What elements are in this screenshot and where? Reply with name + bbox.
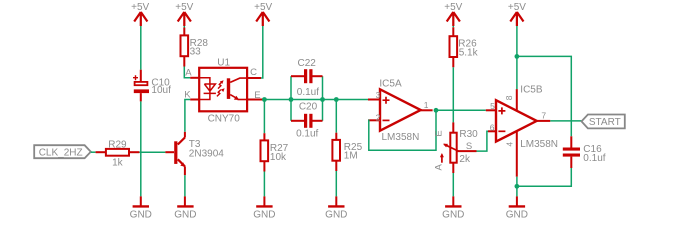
junction node at E/R27 xyxy=(262,97,267,102)
svg-text:6: 6 xyxy=(490,123,495,133)
svg-text:CLK_2HZ: CLK_2HZ xyxy=(39,147,83,158)
wire R25 branch xyxy=(335,100,337,133)
ground GND6 xyxy=(506,196,528,220)
resistor R27 xyxy=(261,133,289,171)
wire R28 to opto A xyxy=(184,67,190,78)
capacitor C16 xyxy=(563,136,606,168)
svg-text:GND: GND xyxy=(253,210,275,221)
svg-text:1M: 1M xyxy=(344,150,358,161)
svg-text:GND: GND xyxy=(130,210,152,221)
pin 3 xyxy=(368,99,380,101)
wire T3 emitter to GND xyxy=(184,175,186,196)
wire flag to R29 xyxy=(91,151,96,153)
wire +5V to R26 xyxy=(452,26,454,27)
svg-text:5.1k: 5.1k xyxy=(459,48,479,59)
svg-text:START: START xyxy=(589,117,621,128)
wire C16 to GND rail xyxy=(517,168,571,186)
svg-text:GND: GND xyxy=(506,210,528,221)
trimmer R30 xyxy=(433,122,478,173)
supply +5V (net to C10) xyxy=(131,2,149,26)
optocoupler U1 CNY70 xyxy=(184,58,262,125)
wire right cap rail xyxy=(322,76,324,121)
svg-text:33: 33 xyxy=(190,46,202,57)
wire +5V to opto C xyxy=(261,26,263,78)
pin 8 xyxy=(516,89,518,110)
pin K xyxy=(190,99,199,101)
svg-text:+5V: +5V xyxy=(254,2,272,13)
pin 7 xyxy=(537,120,551,122)
svg-text:0.1uf: 0.1uf xyxy=(583,153,605,164)
phototransistor inside U1 xyxy=(227,78,230,99)
wire E to IC5A pin3 (main net) xyxy=(263,99,369,101)
svg-text:2k: 2k xyxy=(459,154,471,165)
wire C10 to GND xyxy=(140,101,142,196)
svg-text:U1: U1 xyxy=(217,58,230,69)
svg-text:+5V: +5V xyxy=(131,2,149,13)
capacitor C20 xyxy=(291,101,323,139)
op-amp IC5A xyxy=(368,78,433,143)
ground GND4 xyxy=(325,196,347,220)
resistor R26 xyxy=(450,27,479,67)
pin A xyxy=(190,77,199,79)
pin 6 xyxy=(488,130,496,132)
pin 5 xyxy=(486,109,496,111)
svg-text:3: 3 xyxy=(376,90,381,100)
svg-text:A: A xyxy=(434,163,445,170)
capacitor C22 xyxy=(291,58,323,98)
junction node +5V branch xyxy=(515,54,520,59)
supply +5V (to opto C) xyxy=(254,2,272,26)
svg-text:GND: GND xyxy=(442,210,464,221)
wire R25 to GND xyxy=(335,171,337,196)
junction node left cap rail xyxy=(289,97,294,102)
svg-text:2: 2 xyxy=(376,112,381,122)
junction node right cap rail xyxy=(320,97,325,102)
svg-text:CNY70: CNY70 xyxy=(208,113,241,124)
resistor R29 xyxy=(96,139,140,168)
svg-text:IC5B: IC5B xyxy=(520,85,543,96)
pin E xyxy=(247,99,262,101)
junction node IC5A output xyxy=(434,108,439,113)
junction node R25 xyxy=(334,97,339,102)
LED inside U1 xyxy=(199,78,216,100)
svg-text:10k: 10k xyxy=(270,152,287,163)
wire R27 to GND xyxy=(263,172,265,197)
wire IC5B out to START xyxy=(550,120,581,122)
ground GND3 xyxy=(253,196,275,220)
junction node pin4/C16/GND xyxy=(515,184,520,189)
supply +5V (to IC5B pin8) xyxy=(508,2,526,26)
svg-text:4: 4 xyxy=(505,142,515,147)
flag CLK_2HZ xyxy=(34,145,91,158)
svg-text:LM358N: LM358N xyxy=(520,139,558,150)
ground GND1 xyxy=(130,196,152,220)
svg-text:0.1uf: 0.1uf xyxy=(297,87,319,98)
flag START xyxy=(582,115,625,129)
wire R30 to GND xyxy=(452,173,454,196)
wire +5V to C10 xyxy=(140,26,142,70)
svg-text:5: 5 xyxy=(490,101,495,111)
wire T3 collector to opto K xyxy=(185,100,190,132)
svg-text:A: A xyxy=(185,68,192,79)
wire feedback loop IC5A xyxy=(368,110,436,150)
svg-text:GND: GND xyxy=(325,210,347,221)
wiper pin S xyxy=(456,150,476,152)
wire R29 to T3 base xyxy=(139,151,165,153)
svg-text:+5V: +5V xyxy=(175,2,193,13)
wire left cap rail xyxy=(290,76,292,121)
svg-text:7: 7 xyxy=(541,111,546,121)
wire +5V down to pin8 xyxy=(516,26,518,89)
svg-text:R30: R30 xyxy=(459,129,478,140)
svg-text:1k: 1k xyxy=(112,157,124,168)
pin C xyxy=(247,77,261,79)
pin 1 xyxy=(421,109,433,111)
wire IC5A out to IC5B pin5 xyxy=(436,109,486,111)
wire R26 to R30 xyxy=(452,67,454,122)
resistor R28 xyxy=(181,28,209,67)
ground GND5 xyxy=(442,196,464,220)
transistor T3 xyxy=(165,132,224,175)
svg-text:IC5A: IC5A xyxy=(379,78,402,89)
svg-text:E: E xyxy=(254,90,260,101)
svg-text:2N3904: 2N3904 xyxy=(189,149,224,160)
wire pin4 to GND xyxy=(516,177,518,197)
svg-text:8: 8 xyxy=(504,95,514,100)
wire R27 branch xyxy=(263,100,265,134)
wire +5V to R28 xyxy=(183,26,185,28)
svg-text:C: C xyxy=(250,67,257,78)
wire +5V branch to C16 xyxy=(517,56,571,136)
svg-text:0.1uf: 0.1uf xyxy=(296,129,318,140)
supply +5V (to R28) xyxy=(175,2,193,26)
svg-text:1: 1 xyxy=(424,100,429,110)
light arrows inside U1 xyxy=(218,82,222,89)
svg-text:10uf: 10uf xyxy=(151,85,171,96)
svg-text:C20: C20 xyxy=(299,101,318,112)
pin 2 xyxy=(368,119,380,121)
supply +5V (to R26) xyxy=(444,2,462,26)
svg-text:R29: R29 xyxy=(108,139,127,150)
svg-text:E: E xyxy=(433,130,444,136)
svg-text:+5V: +5V xyxy=(444,2,462,13)
svg-text:C22: C22 xyxy=(298,58,317,69)
svg-text:LM358N: LM358N xyxy=(382,132,420,143)
resistor R25 xyxy=(332,133,362,171)
wire R30 wiper to IC5B pin6 xyxy=(477,131,489,151)
svg-text:K: K xyxy=(184,89,191,100)
capacitor C10 xyxy=(133,70,171,102)
svg-text:+5V: +5V xyxy=(508,2,526,13)
svg-text:GND: GND xyxy=(174,210,196,221)
op-amp IC5B xyxy=(486,85,558,177)
ground GND2 xyxy=(174,196,196,220)
pin 4 xyxy=(516,131,518,177)
